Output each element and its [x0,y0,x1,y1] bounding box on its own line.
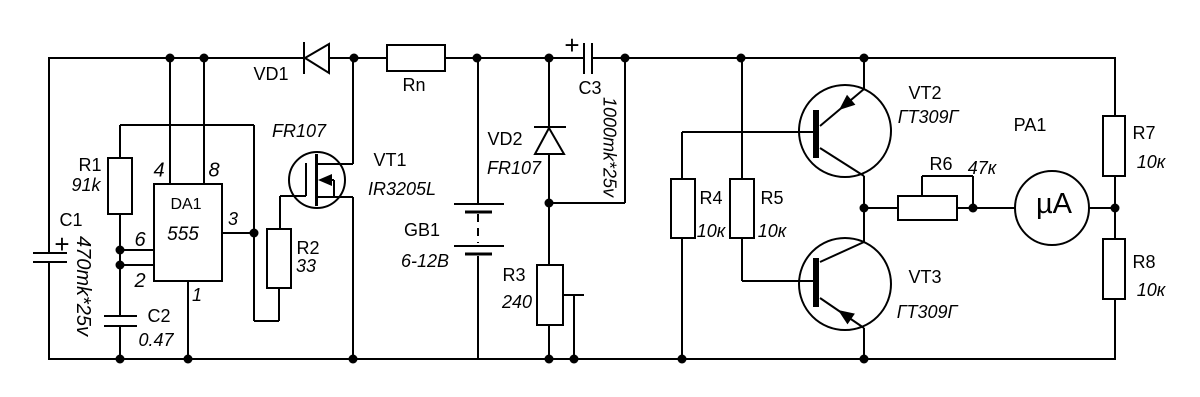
svg-text:+: + [564,30,579,60]
svg-text:VT3: VT3 [908,267,941,287]
node VT3 emitter ground junction [860,355,869,364]
node R5 top junction [737,54,746,63]
node R4 ground junction [678,355,687,364]
svg-text:4: 4 [153,160,164,182]
svg-text:R2: R2 [296,238,319,258]
op-amp timer DA1 555 box [154,184,222,281]
wire pin8 to top rail [203,58,205,184]
node C2 ground junction [116,355,125,364]
svg-text:3: 3 [228,209,238,229]
transistor VT2 [799,85,891,177]
node pin6 junction [116,246,125,255]
wire right rail bottom [1114,299,1116,360]
resistor R4 [671,179,695,238]
wire VD1 to Rn [329,57,387,59]
wire VT2 collector down [863,176,865,208]
node pin1 ground junction [184,355,193,364]
resistor R2 [267,229,291,288]
wire R1 bottom lead down to C2 [119,214,121,316]
svg-text:R7: R7 [1132,123,1155,143]
wire VT1 source [352,197,354,359]
wire R4 top / VT2 base [682,132,813,179]
svg-text:6-12B: 6-12B [401,251,449,271]
resistor R7 [1103,116,1125,176]
svg-text:VT2: VT2 [908,83,941,103]
capacitor C2 [104,316,137,326]
node pin3 junction [250,229,259,238]
svg-text:R4: R4 [699,188,722,208]
diode VD1 [304,42,329,74]
svg-text:10к: 10к [1137,152,1167,172]
wire VT1 drain [352,58,354,164]
svg-text:1000mk*25v: 1000mk*25v [600,97,620,198]
wire pin1 to ground rail [187,281,189,359]
node pin8 rail junction [200,54,209,63]
wire R5 top lead [741,58,743,179]
wire left rail upper [48,57,50,252]
node VT2/VT3 collector junction [860,204,869,213]
node VD2 bottom junction [545,199,554,208]
resistor R6 (variable) [898,196,957,220]
node VT1 source ground junction [349,355,358,364]
node R3 tap ground junction [570,355,579,364]
wire meter to right rail [1089,207,1115,209]
svg-text:555: 555 [167,224,199,245]
svg-text:FR107: FR107 [487,158,542,178]
wire pin3 output [222,232,254,234]
svg-text:2: 2 [133,270,145,292]
wire VT3 collector up [863,208,865,242]
svg-text:470mk*25v: 470mk*25v [72,236,94,337]
svg-text:VD1: VD1 [253,64,288,84]
node pin2 junction [116,261,125,270]
resistor Rn [387,45,445,71]
wire VD2 bottom to bypass [549,202,625,204]
svg-text:C1: C1 [59,210,82,230]
svg-text:10к: 10к [697,221,727,241]
wire R6 tap [922,176,973,208]
svg-text:IR3205L: IR3205L [368,179,436,199]
wire Rn to C3 [445,57,583,59]
svg-text:R1: R1 [78,155,101,175]
battery GB1 [454,58,504,359]
wire pin2 [120,264,155,266]
svg-text:DA1: DA1 [170,196,201,213]
svg-text:33: 33 [296,256,316,276]
wire pin3 vertical (feedback / R2 loop) [253,125,255,321]
node VD2 top junction [545,54,554,63]
node R3 ground junction [545,355,554,364]
node pin4 rail junction [166,54,175,63]
svg-text:C2: C2 [147,306,170,326]
svg-text:240: 240 [501,292,532,312]
svg-text:PA1: PA1 [1014,115,1047,135]
svg-text:Rn: Rn [402,75,425,95]
node VD1 / VT1 drain junction [350,54,359,63]
wire R1 top lead [119,125,121,158]
transistor VT3 [799,238,891,330]
wire left rail lower [48,262,50,360]
wire pin4 to top rail [169,58,171,184]
svg-text:10к: 10к [758,221,788,241]
wire bottom rail [49,358,1115,360]
svg-text:ГТ309Г: ГТ309Г [897,302,959,322]
svg-text:GB1: GB1 [404,220,440,240]
wire top rail left segment [49,57,305,59]
node meter right rail junction [1111,204,1120,213]
transistor VT1 MOSFET [289,152,353,208]
svg-text:µA: µA [1036,188,1073,220]
wire pin6 [120,249,155,251]
svg-text:VD2: VD2 [487,129,522,149]
svg-text:8: 8 [208,160,219,182]
capacitor C3 [584,43,592,74]
wire VT1 gate lead [280,196,306,229]
svg-text:FR107: FR107 [272,121,327,141]
wire R4 bottom lead [681,238,683,359]
wire R3 tap [563,295,584,359]
wire VD2 node to R3 [548,203,550,265]
node C3 right junction [621,54,630,63]
svg-text:1: 1 [192,285,202,305]
node GB1 top junction [473,54,482,63]
wire R5 bottom / VT3 base [742,238,813,281]
wire R6 to meter [957,207,1015,209]
capacitor C1 [33,253,67,262]
wire right rail middle [1114,176,1116,239]
svg-text:ГТ309Г: ГТ309Г [898,107,960,127]
wire VT2 emitter to rail [863,58,865,89]
wire R2 bottom loop [254,288,279,321]
svg-text:R6: R6 [929,154,952,174]
svg-text:6: 6 [134,229,146,251]
meter PA1 [1015,171,1089,245]
svg-text:VT1: VT1 [373,150,406,170]
resistor R3 [537,265,563,325]
resistor R8 [1103,239,1125,299]
svg-text:0.47: 0.47 [138,330,174,350]
wire VT3 emitter to rail [863,328,865,359]
wire C2 bottom lead [119,326,121,359]
svg-text:10к: 10к [1137,280,1167,300]
wire R3 bottom lead [548,325,550,359]
diode VD2 [534,58,566,203]
wire R1 top feedback horizontal [120,124,254,126]
resistor R1 [108,158,132,214]
resistor R5 [730,179,754,238]
node R6 tap junction [969,204,978,213]
wire C3 bypass right vertical [624,58,626,203]
svg-text:+: + [54,229,69,259]
svg-text:C3: C3 [578,78,601,98]
wire right rail top [1114,57,1116,116]
svg-text:R3: R3 [502,265,525,285]
svg-text:91k: 91k [71,175,101,195]
node VT2 emitter rail junction [860,54,869,63]
svg-text:R8: R8 [1132,252,1155,272]
wire VT junction to R6 [864,207,898,209]
wire top rail right segment [593,57,1115,59]
svg-text:R5: R5 [760,188,783,208]
